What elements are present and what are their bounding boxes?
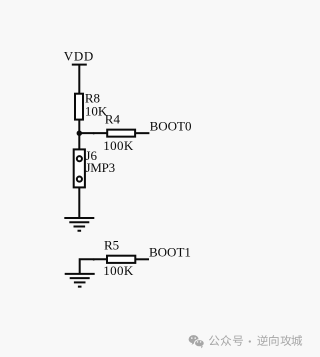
svg-text:VDD: VDD [64, 49, 94, 64]
jumper J6 pin 1 circle [77, 156, 82, 161]
wire R8 to node A [78, 120, 80, 150]
svg-text:BOOT1: BOOT1 [149, 245, 191, 260]
char 向 [269, 335, 278, 346]
svg-text:R4: R4 [105, 112, 121, 127]
char 号 [233, 336, 243, 346]
wire J6 to ground [78, 187, 80, 218]
svg-text:100K: 100K [103, 263, 134, 278]
svg-text:JMP3: JMP3 [86, 160, 115, 175]
wire R5 to BOOT1 [135, 258, 149, 260]
char 众 [221, 335, 232, 346]
resistor R8 body [75, 94, 83, 120]
junction node A dot [77, 131, 82, 136]
char 公 [209, 335, 220, 345]
watermark wechat icon [189, 335, 205, 348]
power port VDD bar [72, 64, 87, 66]
ground symbol 1 [64, 218, 94, 231]
watermark text [209, 335, 302, 346]
resistor R4 body [107, 130, 135, 137]
wire ground 2 stub [80, 259, 107, 274]
watermark separator dot [249, 340, 251, 342]
jumper J6 pin 2 circle [77, 177, 82, 182]
wire VDD bar to R8 [78, 65, 80, 94]
wire R4 to BOOT0 [135, 132, 149, 134]
resistor R5 body [107, 256, 135, 263]
svg-text:R5: R5 [104, 237, 119, 252]
char 逆 [257, 335, 268, 346]
pin nub on R4 wire [93, 132, 95, 134]
svg-text:100K: 100K [103, 138, 134, 153]
char 城 [291, 335, 302, 346]
wire node A to R4 [79, 132, 107, 134]
pin nub on R5 wire [93, 258, 95, 260]
ground symbol 2 [65, 274, 95, 287]
char 攻 [281, 335, 292, 346]
svg-text:BOOT0: BOOT0 [150, 119, 192, 134]
jumper J6 body [74, 149, 85, 187]
